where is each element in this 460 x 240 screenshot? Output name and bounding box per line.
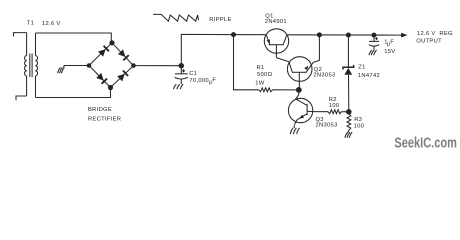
chassis ground below R3 [345,131,352,138]
wire: primary top stub [14,33,27,37]
bridge diode (left-top edge) [98,46,109,57]
wire: bridge output to C1 node [134,65,182,67]
plus sign (1uF) [375,37,378,40]
svg-text:F: F [212,78,216,84]
chassis ground below C1 [174,83,184,89]
transformer T1 primary winding [25,33,27,96]
transistor Q1 2N4901 [264,29,288,58]
wire: primary bottom stub [16,96,27,100]
node: Z1 on rail [346,33,351,38]
svg-text:12.6 V REG: 12.6 V REG [417,31,453,37]
svg-text:SeekIC.com: SeekIC.com [394,136,457,152]
resistor R1 500 ohm 1W [259,88,273,92]
capacitor 1uF 15V [369,35,379,50]
wire: Q1 base to Q2 collector [276,58,289,62]
svg-text:500Ω: 500Ω [257,72,273,78]
wire: Z1 anode to node [348,75,350,112]
wire: node down to Q3 collector [296,90,299,99]
bridge diode (bottom-right edge) [117,71,128,82]
resistor R2 100 [328,110,342,114]
svg-text:BRIDGE: BRIDGE [88,107,112,113]
wire: secondary bottom lead to bridge bottom vertex [36,88,111,98]
wire: secondary top lead to bridge top vertex [36,33,112,43]
node: Q2 base / Q3 collector / R1 junction [296,87,302,93]
node: Q2 emitter on rail [317,32,322,37]
bridge diode (left-bottom edge) [96,73,107,84]
transistor Q2 2N3053 [287,57,313,90]
transformer T1 core [30,54,32,78]
ripple waveform symbol [153,14,199,21]
svg-text:1N4742: 1N4742 [358,73,380,79]
capacitor C1 [175,66,188,84]
wire: rail to Z1 cathode [347,35,349,67]
node: R1 takeoff on rail [231,32,236,37]
chassis ground below Q3 [290,125,299,134]
svg-text:2N3053: 2N3053 [316,123,338,129]
svg-text:100: 100 [329,103,340,109]
wire: Q2 emitter up to rail [313,35,319,62]
svg-text:RIPPLE: RIPPLE [209,17,231,23]
node: bridge right vertex [131,63,136,68]
wire: R1 to base node [273,89,299,91]
svg-text:F: F [390,39,394,45]
wire: Q3 base to R2 [313,111,328,113]
chassis ground at bridge [58,66,65,74]
node: output capacitor on rail [372,33,377,38]
svg-text:T1: T1 [27,20,34,26]
C1 plus sign [182,69,185,72]
svg-text:70,000: 70,000 [189,78,209,84]
bridge rectifier diamond wires [89,43,134,88]
node: bridge top vertex [109,40,114,45]
transformer T1 secondary winding [36,33,38,98]
transistor Q3 2N3053 [288,98,312,122]
svg-text:OUTPUT: OUTPUT [416,39,442,45]
chassis ground below 1uF [369,50,377,56]
zener diode Z1 1N4742 [343,65,354,75]
svg-text:Z1: Z1 [358,64,365,70]
output arrow [401,33,407,38]
wire: R2 to node [342,111,349,113]
wire: Q3 emitter to ground [294,120,297,125]
svg-text:C1: C1 [189,71,197,77]
wire: R3 to ground [347,130,350,131]
wire: rail down to R1 [234,35,259,90]
wire: C1 node up and across to Q1 emitter [181,34,265,65]
resistor R3 100 [347,114,351,130]
svg-text:R1: R1 [257,65,265,71]
node: bridge bottom vertex [108,85,113,90]
node: bridge left vertex [87,63,92,68]
svg-text:1W: 1W [255,81,265,87]
svg-text:RECTIFIER: RECTIFIER [88,116,121,122]
wire: ground to bridge left vertex [64,65,89,67]
node: Z1 / R2 / R3 junction [346,109,352,115]
svg-text:R2: R2 [329,97,337,103]
bridge diode (top-right edge) [118,49,129,60]
svg-text:15V: 15V [384,49,395,55]
node: C1 junction [179,63,184,68]
svg-text:R3: R3 [354,117,362,123]
svg-text:2N4901: 2N4901 [265,19,287,25]
svg-text:12.6 V: 12.6 V [42,21,61,27]
svg-text:100: 100 [354,124,365,130]
wire: output rail from Q1 collector [288,34,402,36]
svg-text:2N3053: 2N3053 [313,73,335,79]
